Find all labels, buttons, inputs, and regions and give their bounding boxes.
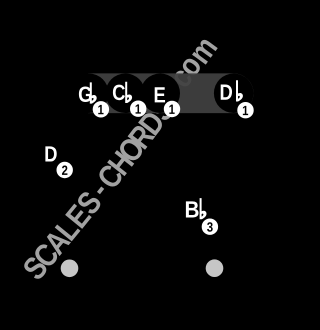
label Db: letter D: [221, 85, 232, 100]
label Cb: flat sign: [125, 82, 132, 103]
watermark letter .: [171, 91, 177, 97]
fret inlay marker left: [61, 260, 79, 278]
note dot D: [33, 134, 73, 174]
finger badge 1 on Db: [237, 102, 253, 118]
watermark letter L: [55, 217, 81, 242]
note dot Db: [214, 73, 254, 113]
finger badge 1 on E: [164, 101, 180, 117]
watermark letter S: [75, 189, 103, 216]
label Bb: letter B: [186, 201, 199, 217]
finger badge 2 on D: [56, 162, 72, 178]
label Cb: letter C: [113, 85, 125, 101]
finger badge 1 on Gb: [93, 101, 109, 117]
barre (fret 1 bar): [88, 73, 254, 113]
fret inlay marker right: [206, 259, 224, 277]
label Db: flat sign: [236, 80, 243, 101]
watermark letter m: [192, 38, 218, 65]
note dot E: [140, 73, 180, 113]
finger badge 1 on Cb: [130, 101, 146, 117]
watermark SCALES-CHORDS.com: [21, 38, 217, 282]
label Bb: flat sign: [200, 198, 207, 219]
label Gb: flat sign: [90, 82, 97, 103]
watermark letter -: [97, 187, 104, 195]
watermark letter S: [148, 96, 176, 123]
watermark letter E: [65, 203, 92, 229]
watermark letter S: [21, 255, 49, 282]
watermark letter o: [180, 56, 203, 78]
watermark letter C: [96, 162, 125, 190]
watermark letter C: [32, 241, 61, 269]
finger badge 3 on Bb: [202, 219, 218, 235]
watermark letter H: [107, 150, 134, 176]
watermark letter O: [116, 135, 145, 164]
note dot Bb: [178, 191, 218, 231]
watermark letter D: [138, 110, 166, 136]
note dot Gb: [69, 73, 109, 113]
label D: letter D: [45, 146, 56, 161]
label E: letter E: [155, 87, 165, 102]
watermark letter c: [172, 68, 194, 89]
watermark letter A: [43, 228, 71, 256]
watermark letter R: [128, 123, 156, 150]
note dot Cb: [106, 73, 146, 113]
label Gb: letter G: [79, 86, 91, 102]
